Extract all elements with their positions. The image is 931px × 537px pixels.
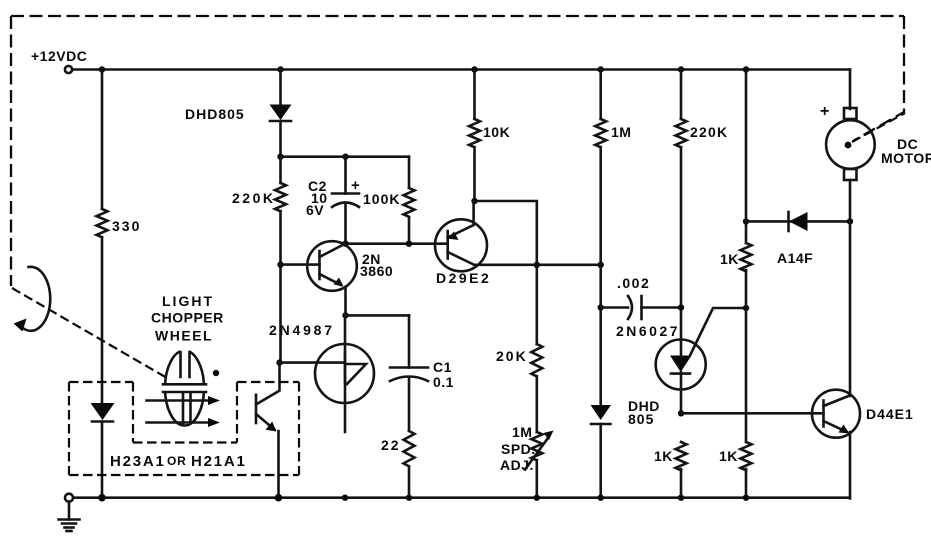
diode DHD805 (lower): [591, 405, 612, 420]
svg-text:1K: 1K: [720, 251, 739, 267]
terminal ground: [65, 494, 73, 502]
svg-text:CHOPPER: CHOPPER: [151, 310, 224, 326]
wire emitter node to C1: [346, 314, 410, 317]
junction top rail / 1M column: [598, 66, 604, 72]
transistor Q2 D29E2: [435, 219, 487, 271]
wire right 1K column: [745, 70, 748, 499]
junction A14F right / motor column: [847, 218, 853, 224]
junction top rail / 330 column: [99, 66, 105, 72]
LED of optocoupler H23A1: [91, 403, 115, 420]
phototransistor of optocoupler H23A1: [255, 395, 258, 423]
svg-text:22: 22: [381, 437, 401, 453]
svg-text:D29E2: D29E2: [436, 270, 491, 286]
terminal +12VDC: [65, 66, 72, 73]
junction top rail / DHD805 column: [277, 66, 283, 72]
optocoupler light-gap dashed notch: [133, 382, 237, 443]
wire 2N6027 gate: [690, 308, 747, 357]
wire D44E1 base line: [681, 412, 824, 415]
wire emitter node over to 20K column: [475, 201, 537, 344]
wire 2N3860 base: [281, 263, 320, 266]
junction top rail / 220K column: [678, 66, 684, 72]
junction .002 right / 2N6027 anode node: [678, 304, 684, 310]
svg-text:1K: 1K: [719, 448, 738, 464]
junction A14F left node: [743, 218, 749, 224]
wire D29E2 collector to 1M column: [474, 263, 601, 266]
svg-text:1K: 1K: [654, 448, 673, 464]
svg-text:805: 805: [628, 411, 654, 427]
wire node to 100K top: [281, 155, 410, 158]
wire D44E1 emitter to ground rail: [849, 432, 852, 499]
wire 2N3860 emitter down: [344, 287, 347, 315]
svg-text:.002: .002: [617, 275, 650, 291]
junction 2N6027 cathode node: [678, 410, 684, 416]
capacitor C2 10uF 6V: [344, 157, 347, 194]
wire diode cathode to ground rail: [599, 424, 602, 499]
wire A14F branch: [746, 220, 850, 223]
svg-text:D44E1: D44E1: [866, 406, 914, 422]
svg-text:H21A1: H21A1: [191, 453, 247, 470]
resistor R 220K (right): [680, 70, 683, 341]
wire ground bottom rail: [73, 496, 850, 499]
capacitor C1 0.1: [408, 315, 411, 367]
junction .002 left node: [598, 304, 604, 310]
wire top rail corner down to motor: [849, 70, 852, 110]
dc motor M1: [844, 108, 857, 119]
resistor R 1K (below 2N6027): [676, 442, 687, 499]
diode A14F: [789, 212, 808, 231]
junction ground rail / pot column: [534, 495, 540, 501]
mechanical coupling dashed link, left edge: [10, 16, 12, 286]
resistor R 220K (left): [275, 183, 286, 211]
svg-text:WHEEL: WHEEL: [155, 328, 213, 344]
svg-text:H23A1: H23A1: [110, 453, 166, 470]
resistor R 1M: [599, 70, 602, 405]
junction top rail / 10K column: [471, 66, 477, 72]
svg-text:C1: C1: [433, 359, 452, 375]
junction ground rail / 22 column: [406, 495, 412, 501]
resistor R 1K (near A14F): [741, 243, 752, 271]
junction DHD805 cathode node: [277, 154, 283, 160]
junction collector line / 20K column: [534, 262, 540, 268]
shaft rotation arrow: [21, 267, 51, 331]
svg-text:2N4987: 2N4987: [269, 322, 335, 338]
svg-text:220K: 220K: [690, 124, 728, 140]
diode DHD805 (top): [270, 105, 292, 121]
svg-text:6V: 6V: [306, 202, 324, 218]
junction phototransistor collector node: [276, 359, 282, 365]
transistor Q1 2N3860: [307, 241, 357, 291]
junction 10K bottom / D29E2 emitter node: [471, 198, 477, 204]
junction 100K bottom node: [406, 241, 412, 247]
junction emitter / 2N4987 anode node: [342, 312, 348, 318]
svg-text:3860: 3860: [360, 263, 393, 279]
svg-text:MOTOR: MOTOR: [881, 150, 931, 166]
junction ground rail / 1K column: [678, 495, 684, 501]
thyristor Q3 2N6027: [656, 340, 706, 390]
wire 330 column: [101, 70, 104, 403]
wire 220K column: [279, 157, 282, 363]
potentiometer 1M speed adjust: [531, 432, 542, 499]
svg-text:220K: 220K: [232, 190, 275, 206]
transistor Q4 D44E1: [812, 390, 860, 438]
svg-text:1M: 1M: [611, 124, 631, 140]
dashed shaft link from motor: [852, 113, 905, 142]
mechanical coupling dashed link, right edge down to motor shaft: [853, 16, 904, 141]
resistor R 1K (bottom right): [741, 442, 752, 470]
wire phototransistor emitter to ground rail: [277, 431, 280, 499]
svg-text:10K: 10K: [483, 124, 510, 140]
junction 2N3860 base node: [277, 261, 283, 267]
capacitor C .002: [601, 306, 628, 309]
junction collector/C2 node: [342, 241, 348, 247]
svg-text:20K: 20K: [496, 348, 528, 364]
junction ground rail / LED column: [98, 494, 106, 502]
optocoupler H23A1 dashed outline: [69, 382, 299, 475]
wire +12V top rail: [72, 68, 850, 71]
svg-text:OR: OR: [167, 454, 187, 468]
resistor R 10K: [473, 70, 476, 202]
svg-text:A14F: A14F: [777, 250, 813, 266]
svg-text:+12VDC: +12VDC: [31, 48, 87, 64]
svg-text:DHD805: DHD805: [185, 106, 245, 122]
junction gate / 1K column: [743, 305, 749, 311]
resistor R 20K: [531, 344, 542, 432]
wire LED cathode to ground rail: [101, 422, 104, 499]
svg-text:LIGHT: LIGHT: [162, 293, 214, 309]
mechanical coupling dashed link, top edge: [11, 15, 904, 17]
svg-text:+: +: [351, 177, 360, 194]
junction collector line / 1M column: [598, 262, 604, 268]
junction top rail / right 1K column: [743, 66, 749, 72]
svg-text:ADJ.: ADJ.: [500, 457, 534, 473]
svg-text:1M: 1M: [512, 424, 532, 440]
switch diode U2 2N4987: [315, 344, 374, 403]
svg-text:0.1: 0.1: [433, 374, 454, 390]
resistor R 330: [97, 209, 108, 237]
wire 2N3860 collector node to D29E2 base: [346, 242, 448, 245]
resistor R 100K: [408, 157, 411, 244]
svg-text:SPD.: SPD.: [501, 441, 536, 457]
junction ground rail / phototransistor emitter: [275, 494, 283, 502]
junction C2 top node: [342, 154, 348, 160]
wire DHD805 column: [279, 70, 282, 157]
light beam arrow lower: [147, 421, 214, 424]
light chopper wheel: [165, 351, 204, 426]
wire motor minus down to D44E1 collector: [849, 221, 852, 396]
ground symbol: [68, 502, 71, 520]
index dot beside wheel: [213, 370, 219, 376]
svg-text:100K: 100K: [363, 191, 400, 207]
svg-text:2N6027: 2N6027: [616, 323, 680, 339]
svg-text:330: 330: [112, 218, 141, 234]
light beam arrow upper: [147, 399, 214, 402]
junction ground rail / right 1K column: [743, 495, 749, 501]
junction ground rail / 2N4987 cathode: [342, 495, 348, 501]
mechanical coupling dashed diagonal to chopper wheel: [12, 288, 167, 378]
resistor R 22: [404, 431, 415, 499]
junction ground rail / diode column: [598, 495, 604, 501]
svg-text:+: +: [820, 103, 830, 120]
